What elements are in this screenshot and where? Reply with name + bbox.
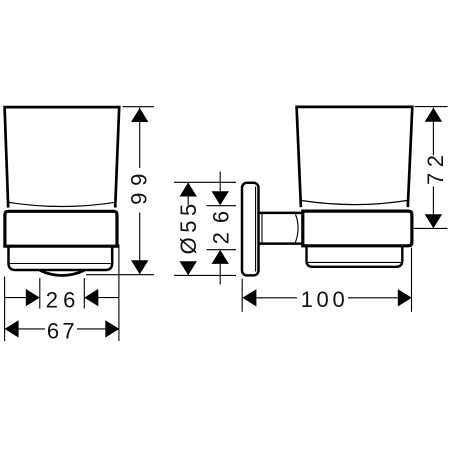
dim 99: top arrow [131, 108, 148, 122]
dim 72: bottom extension line [414, 227, 448, 229]
dim 99: dimension line [139, 108, 141, 275]
side view: arm right joint curve [295, 214, 298, 242]
side view: lower glass inner line [308, 261, 401, 263]
dim 72: dimension line [432, 108, 434, 228]
dim 26 middle: top leader and arrow [219, 172, 221, 193]
side view: glass cup body [297, 107, 413, 207]
dim 26 bottom: right extension line [83, 278, 85, 309]
dim 26 bottom: left extension line [39, 278, 41, 309]
dim 26 bottom: right leader and arrow [98, 297, 119, 299]
svg-text:Ø55: Ø55 [176, 199, 201, 254]
dim 100: right arrow [398, 289, 412, 306]
side view: arm left joint line [261, 214, 263, 242]
dim 72: bottom arrow [425, 214, 442, 228]
front view: glass cup body [5, 107, 120, 208]
dim 67: left arrow [5, 320, 19, 337]
dim 67: left extension line [4, 277, 6, 342]
dim dia55: bottom arrow [180, 261, 197, 275]
dim 100: left arrow [242, 289, 256, 306]
front view: glass bottom dome arc [40, 270, 85, 275]
dim 99: bottom extension line [86, 274, 154, 276]
front view: lower glass part [9, 247, 113, 271]
dim 26 middle: top reference tick [207, 205, 237, 207]
front view: lower glass inner line [10, 263, 111, 265]
dim 67: right arrow [105, 320, 119, 337]
dim 99: bottom arrow [131, 260, 148, 274]
dim dia55: bottom extension line [174, 274, 236, 276]
side view: arm bottom line [260, 242, 302, 245]
dim 100: right extension line [411, 248, 413, 312]
svg-text:26: 26 [209, 202, 234, 244]
dim 26 middle: bottom reference tick [207, 249, 237, 251]
front view: glass cup bottom curve [8, 202, 115, 206]
svg-text:72: 72 [423, 150, 448, 185]
front view: holder ring band [5, 211, 117, 246]
dim 72: top extension line [415, 106, 448, 108]
side view: arm top line [260, 212, 302, 215]
side view: wall plate [242, 183, 259, 276]
dim 100: dimension line [256, 297, 397, 299]
side view: lower glass part [307, 246, 403, 267]
dim 67: dimension line [19, 328, 106, 330]
svg-text:67: 67 [47, 318, 78, 343]
side view: wall plate face line [255, 187, 257, 272]
svg-text:100: 100 [301, 287, 349, 312]
svg-text:99: 99 [126, 167, 151, 205]
dim dia55: top extension line [174, 181, 236, 183]
dim 67: right extension line [118, 245, 120, 342]
side view: glass cup bottom curve [301, 200, 408, 204]
dim 26 bottom: left leader and arrow [5, 297, 26, 299]
svg-text:26: 26 [46, 287, 81, 312]
dim 100: left extension line [241, 279, 243, 312]
dim 99: top extension line [123, 106, 155, 108]
side view: holder ring band [303, 211, 412, 246]
dim 72: top arrow [425, 108, 442, 122]
dim 26 middle: bottom leader and arrow [219, 264, 221, 285]
dim dia55: dimension line [187, 183, 189, 275]
dim dia55: top arrow [180, 183, 197, 197]
